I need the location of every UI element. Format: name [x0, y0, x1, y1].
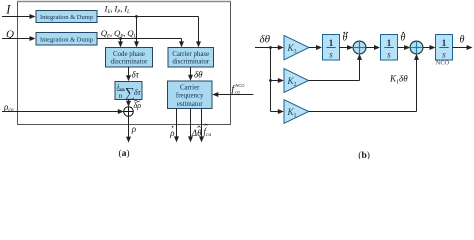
svg-text:Carrier: Carrier: [180, 85, 200, 92]
svg-text:NCO: NCO: [236, 83, 245, 88]
svg-text:frequency: frequency: [176, 93, 204, 100]
wire: delta-theta-hat output: [188, 109, 193, 143]
wire: K2 output up into adder 1: [309, 54, 363, 81]
wire: integrator 1 to adder 1: [340, 45, 354, 50]
svg-text:Carrier phase: Carrier phase: [172, 51, 209, 58]
wire: rho-dot-hat output: [174, 109, 179, 143]
svg-text:IE, IP, IL: IE, IP, IL: [104, 4, 131, 16]
svg-text:ρ: ρ: [169, 128, 175, 138]
adder junction (a): [124, 107, 134, 117]
wire: sum block to adder: [126, 100, 131, 107]
svg-text:s: s: [329, 50, 333, 60]
wire: adder 1 to integrator 2: [366, 45, 380, 50]
svg-text:δτ: δτ: [134, 88, 142, 97]
integrator block 1/s (second): [381, 35, 398, 61]
block: Carrier phase discriminator: [168, 48, 214, 68]
integrator block 1/s (first): [323, 35, 340, 61]
svg-text:QE, QP, QL: QE, QP, QL: [101, 28, 137, 40]
gain triangle K1: [284, 100, 309, 124]
svg-text:δτ: δτ: [132, 70, 140, 80]
gain triangle K3: [284, 35, 309, 59]
svg-text:Integration & Dump: Integration & Dump: [40, 37, 93, 44]
block: Carrier frequency estimator: [168, 81, 213, 109]
system boundary box of diagram (a): [17, 2, 231, 125]
svg-text:estimator: estimator: [177, 101, 203, 108]
node label delta-rho (smoothed, tilde): [134, 100, 142, 109]
wire: f_ca^NCO input into frequency estimator: [212, 92, 253, 97]
adder junction 2 (b): [410, 41, 423, 54]
block: code smoothing sum (lambda_ca/n * sum delta-tau): [115, 82, 142, 100]
node label delta-theta-hat: [191, 126, 202, 138]
wire: theta output: [453, 45, 473, 50]
node label theta-double-dot: [343, 32, 349, 44]
gain triangle K2: [284, 69, 309, 93]
wire: f_ca-hat output: [199, 109, 204, 143]
svg-text:(a): (a): [119, 148, 130, 159]
svg-text:discriminator: discriminator: [172, 58, 209, 65]
svg-text:Integration & Dump: Integration & Dump: [40, 14, 93, 21]
svg-text:δρ: δρ: [134, 101, 142, 110]
svg-text:NCO: NCO: [436, 60, 450, 67]
integrator block 1/s (NCO): [436, 35, 453, 61]
node label rho-dot-hat: [169, 126, 175, 138]
wire: delta-theta from carrier discriminator to frequency estimator: [188, 67, 193, 81]
adder junction 1 (b): [353, 41, 366, 54]
svg-text:θ: θ: [460, 35, 465, 46]
wire: K3 to integrator 1: [309, 45, 322, 50]
svg-text:δθ: δθ: [260, 34, 271, 46]
svg-text:K1δθ: K1δθ: [389, 74, 408, 86]
svg-text:ρ: ρ: [131, 124, 137, 134]
svg-text:n: n: [119, 92, 123, 100]
svg-text:s: s: [387, 50, 391, 60]
block: Integration & Dump (Q branch): [36, 33, 97, 46]
svg-text:discriminator: discriminator: [111, 58, 148, 65]
wire: K1 output up into adder 2: [309, 54, 419, 112]
svg-text:I: I: [5, 2, 11, 16]
wire: I outputs to discriminators: [97, 15, 201, 47]
wire: integrator 2 to adder 2: [398, 45, 411, 50]
wire: Q input into Integration & Dump 2: [2, 36, 36, 41]
block: Code phase discriminator: [106, 48, 153, 68]
wire: rho_co input to adder: [2, 109, 124, 114]
node label theta-dot: [401, 32, 406, 44]
svg-text:(b): (b): [358, 150, 370, 159]
svg-text:δθ: δθ: [194, 70, 203, 80]
wire: rho output downward: [126, 116, 131, 142]
svg-text:Code phase: Code phase: [113, 51, 145, 58]
svg-text:θ: θ: [401, 33, 406, 44]
svg-text:θ: θ: [343, 33, 348, 44]
wire: adder 2 to NCO integrator: [423, 45, 436, 50]
node label f_ca-hat: [204, 124, 212, 138]
svg-text:fca: fca: [204, 127, 212, 139]
wire: delta-tau from code discriminator to sum block: [126, 67, 131, 81]
block: Integration & Dump (I branch): [36, 11, 97, 23]
wire: delta-theta input trunk with branches to K3 K2 K1: [255, 45, 284, 114]
wire: I input into Integration & Dump 1: [2, 14, 36, 19]
input node label f_ca^NCO: [231, 83, 244, 95]
wire: Q outputs to discriminators: [97, 37, 184, 47]
